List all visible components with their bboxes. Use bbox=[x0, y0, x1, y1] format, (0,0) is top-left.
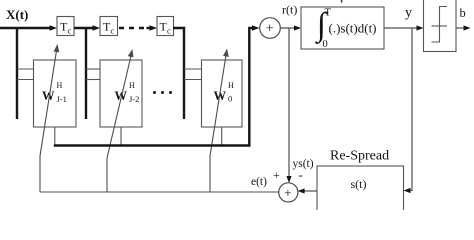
re-spread box, bottom cut off bbox=[317, 166, 404, 216]
wire: r(t) junction down to error adder bbox=[286, 28, 291, 183]
svg-text:c: c bbox=[111, 26, 115, 36]
wire: double connector tap1 to W J-1 bbox=[17, 69, 34, 80]
svg-text:y: y bbox=[405, 6, 412, 21]
adaptation arrow through W J-1 bbox=[40, 44, 59, 192]
wire: re-spread output ys(t) into error adder bbox=[298, 188, 317, 193]
wire: y feedback down to re-spread bbox=[404, 28, 413, 193]
wire: W J-2 output to bus bbox=[120, 127, 122, 146]
adaptation arrow through W J-2 bbox=[107, 49, 133, 192]
wire: W J-1 output to bus bbox=[54, 127, 56, 146]
wire: tap vertical 1 bbox=[16, 28, 18, 119]
svg-text:c: c bbox=[167, 26, 171, 36]
wire: dashed segment Tc2 to Tc3 bbox=[119, 27, 154, 29]
wire: double connector tap2 to W J-2 bbox=[86, 69, 101, 80]
svg-text:T: T bbox=[325, 8, 332, 19]
svg-text:+: + bbox=[284, 185, 291, 200]
svg-text:+: + bbox=[273, 168, 280, 182]
label e(t) bbox=[251, 176, 267, 188]
svg-text:e(t): e(t) bbox=[251, 176, 267, 188]
arrowhead into adder bbox=[252, 25, 260, 31]
wire: decision output b bbox=[456, 25, 471, 30]
wire: X(t) input rail bbox=[0, 27, 54, 29]
wire: integrator to decision (y) bbox=[384, 27, 420, 29]
arrowhead into Tc2 bbox=[93, 25, 101, 31]
svg-text:J-1: J-1 bbox=[57, 94, 67, 104]
svg-text:c: c bbox=[68, 26, 72, 36]
label plus sign bbox=[273, 168, 280, 182]
delay element Tc3 bbox=[157, 17, 174, 36]
svg-text:H: H bbox=[129, 81, 135, 90]
svg-text:0: 0 bbox=[323, 39, 328, 50]
svg-text:J-2: J-2 bbox=[129, 94, 139, 104]
label ys(t) bbox=[293, 158, 314, 170]
svg-text:X(t): X(t) bbox=[6, 7, 28, 22]
svg-text:H: H bbox=[228, 81, 234, 90]
delay element Tc1 bbox=[57, 17, 74, 36]
adaptation arrow through W 0 bbox=[210, 49, 229, 193]
svg-text:H: H bbox=[57, 81, 63, 90]
svg-text:(.)s(t)d(t): (.)s(t)d(t) bbox=[329, 21, 377, 36]
svg-text:-: - bbox=[299, 167, 303, 182]
ellipsis dots bbox=[153, 91, 172, 94]
wire: error e(t) feedback line bbox=[40, 191, 279, 193]
error adder circle bbox=[279, 183, 298, 202]
label Re-Spread bbox=[330, 149, 389, 164]
svg-text:b: b bbox=[460, 6, 466, 20]
arrowhead into integrator bbox=[294, 25, 301, 30]
wire: double connector tap3 to W 0 bbox=[184, 69, 202, 80]
decision device (hard limiter) box, top cut off bbox=[424, 0, 457, 52]
label X(t) bbox=[6, 7, 28, 22]
svg-text:W: W bbox=[115, 89, 128, 103]
label b bbox=[460, 6, 466, 20]
remnant of cut-off De-Spread label bbox=[341, 0, 343, 3]
arrowhead into decision box bbox=[417, 25, 424, 30]
wire: adder to integrator (r(t)) bbox=[280, 27, 297, 29]
svg-text:+: + bbox=[266, 22, 274, 37]
wire: Tc3 output corner down (tap 3) bbox=[173, 28, 184, 119]
label minus sign bbox=[299, 167, 303, 182]
arrowhead into Tc1 bbox=[50, 25, 58, 31]
wire: summing bus and riser to adder bbox=[54, 28, 255, 146]
weight box W J-1 bbox=[34, 60, 77, 127]
weight box W 0 bbox=[202, 60, 243, 127]
arrowhead into Tc3 bbox=[150, 25, 158, 31]
wire: W 0 output to bus bbox=[221, 127, 223, 146]
delay element Tc2 bbox=[100, 17, 118, 36]
svg-text:ys(t): ys(t) bbox=[293, 158, 314, 170]
svg-text:0: 0 bbox=[228, 94, 232, 104]
svg-text:r(t): r(t) bbox=[282, 3, 297, 17]
wire: tap vertical 2 bbox=[85, 28, 87, 119]
weight box W J-2 bbox=[100, 60, 142, 127]
integrator (de-spread) box bbox=[301, 7, 384, 50]
label y bbox=[405, 6, 412, 21]
adder (sum) circle bbox=[260, 18, 281, 39]
svg-text:s(t): s(t) bbox=[351, 177, 367, 191]
label r(t) bbox=[282, 3, 297, 17]
wire: Tc1 to Tc2 bbox=[74, 27, 97, 29]
svg-text:Re-Spread: Re-Spread bbox=[330, 149, 389, 164]
